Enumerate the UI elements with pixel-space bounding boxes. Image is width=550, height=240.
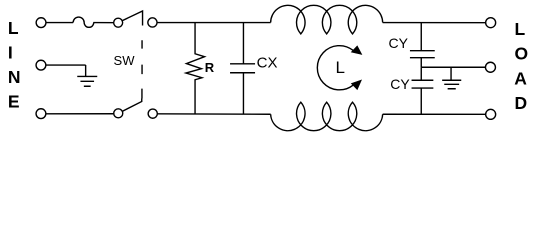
wire bottom rail (switch to choke) xyxy=(153,113,271,115)
switch SW pole 2 pivot xyxy=(114,109,123,118)
inductor L top winding xyxy=(271,5,383,34)
resistor R xyxy=(186,23,205,114)
switch SW pole 1 blade xyxy=(118,11,142,26)
wire top-left xyxy=(41,22,73,24)
ground right xyxy=(442,67,461,89)
svg-text:O: O xyxy=(515,44,529,64)
svg-text:N: N xyxy=(8,67,21,87)
node LINE label xyxy=(8,18,21,112)
wire mid right xyxy=(421,66,490,68)
svg-text:SW: SW xyxy=(114,53,136,68)
capacitor CX xyxy=(230,23,255,115)
switch SW pole 1 throw xyxy=(148,18,157,27)
node LOAD label xyxy=(514,19,528,113)
wire bottom-left xyxy=(41,113,118,115)
inductor L flux arrow xyxy=(317,46,353,90)
svg-text:I: I xyxy=(8,43,13,63)
switch SW pole 1 pivot xyxy=(114,18,123,27)
svg-text:R: R xyxy=(205,60,215,75)
wire ground-left xyxy=(41,64,86,66)
svg-text:L: L xyxy=(8,18,19,38)
svg-text:CY: CY xyxy=(389,35,409,51)
terminal load-bottom xyxy=(486,109,496,119)
capacitor CY top xyxy=(410,23,435,68)
terminal line-mid xyxy=(36,60,46,70)
capacitor CY bottom xyxy=(412,67,434,114)
svg-text:L: L xyxy=(515,19,526,39)
svg-text:D: D xyxy=(515,93,528,113)
wire top rail (switch to choke) xyxy=(152,22,270,24)
wire fuse-to-switch xyxy=(93,22,118,24)
wire bottom rail right xyxy=(383,113,491,115)
switch SW linkage dashed xyxy=(141,40,143,98)
switch SW pole 2 blade xyxy=(118,98,142,113)
terminal load-top xyxy=(486,18,496,28)
svg-text:E: E xyxy=(8,92,20,112)
wire top rail right xyxy=(383,22,491,24)
svg-text:L: L xyxy=(335,58,344,77)
fuse xyxy=(73,17,94,27)
svg-text:CY: CY xyxy=(390,76,410,92)
terminal line-top xyxy=(36,18,46,28)
switch SW pole 2 throw xyxy=(148,109,157,118)
svg-text:A: A xyxy=(514,69,527,89)
terminal line-bottom xyxy=(36,109,46,119)
ground left xyxy=(77,65,97,86)
inductor L bottom winding xyxy=(271,102,383,131)
terminal load-mid xyxy=(485,62,495,72)
svg-text:CX: CX xyxy=(257,54,278,71)
